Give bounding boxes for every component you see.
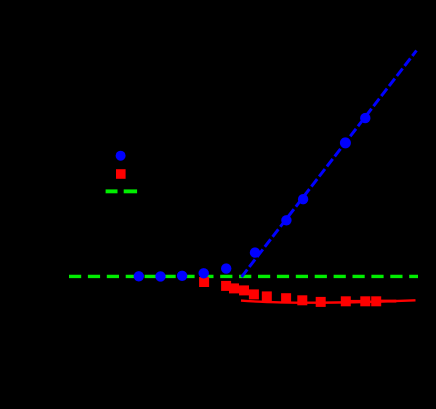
legend marker: red square [116, 169, 126, 179]
blue point 7 [281, 215, 291, 225]
red error bar between points 10 and 11 [351, 300, 361, 303]
red point 3 [229, 283, 239, 293]
red point 11 [360, 296, 370, 306]
red data squares [199, 277, 381, 307]
red solid fit line [241, 300, 416, 302]
blue point 6 [250, 247, 260, 257]
blue point 1 [134, 271, 144, 281]
blue point 9 [340, 137, 351, 148]
red point 1 [199, 277, 209, 287]
blue point 4 [199, 268, 209, 278]
red point 8 [297, 295, 307, 305]
red point 10 [341, 296, 351, 306]
red point 6 [262, 291, 272, 301]
blue point 8 [298, 194, 308, 204]
blue point 2 [155, 271, 165, 281]
red error bar right of point 12 [381, 300, 396, 303]
blue point 3 [177, 271, 187, 281]
red point 12 [371, 296, 381, 306]
blue dashed fit line (rising) [242, 51, 417, 278]
blue point 10 [360, 113, 370, 123]
green dashed horizontal reference line [69, 275, 418, 278]
legend marker: blue circle [116, 151, 126, 161]
red point 7 [281, 293, 291, 303]
red point 9 [316, 297, 326, 307]
red point 4 [239, 285, 249, 295]
red point 5 [249, 289, 259, 299]
red point 2 [221, 281, 231, 291]
blue point 5 [221, 263, 231, 273]
blue data circles [134, 113, 371, 282]
legend sample: green dashed line [106, 189, 137, 193]
